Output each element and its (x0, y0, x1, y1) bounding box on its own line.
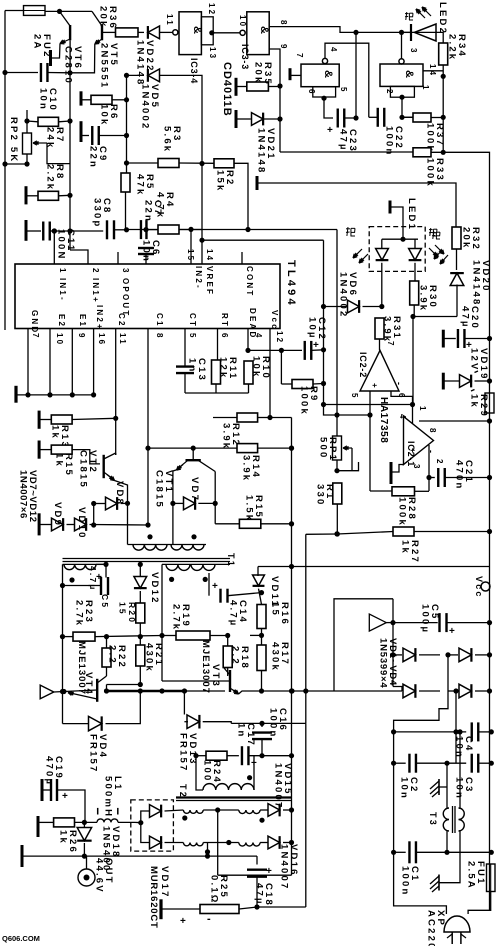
svg-text:1k: 1k (54, 453, 65, 468)
svg-text:C5: C5 (100, 594, 110, 609)
svg-text:16: 16 (97, 333, 106, 346)
svg-text:100n: 100n (400, 866, 411, 896)
svg-text:470µ: 470µ (44, 756, 55, 786)
svg-text:Q606.COM: Q606.COM (2, 934, 40, 943)
svg-text:20k: 20k (98, 6, 109, 28)
svg-text:8: 8 (155, 333, 164, 340)
svg-text:47k: 47k (135, 174, 146, 196)
svg-text:7: 7 (295, 53, 304, 60)
svg-text:11: 11 (118, 333, 127, 346)
svg-text:10: 10 (55, 333, 64, 346)
svg-text:1N4002: 1N4002 (140, 84, 151, 130)
svg-text:47µ: 47µ (460, 306, 471, 329)
svg-text:&: & (322, 70, 334, 80)
svg-text:FR157: FR157 (88, 734, 99, 774)
svg-text:3: 3 (121, 268, 130, 275)
svg-text:430k: 430k (270, 642, 281, 672)
svg-text:-: - (394, 382, 404, 387)
svg-text:C1815: C1815 (154, 470, 165, 509)
svg-text:3.9k: 3.9k (221, 423, 232, 450)
svg-text:3.9k: 3.9k (382, 316, 393, 343)
svg-text:E1: E1 (78, 314, 87, 328)
svg-text:7: 7 (386, 341, 395, 348)
svg-text:VD12: VD12 (149, 572, 160, 605)
svg-text:1: 1 (58, 268, 67, 275)
svg-text:10n: 10n (38, 88, 49, 111)
svg-text:430k: 430k (144, 643, 155, 673)
svg-text:14: 14 (428, 64, 437, 77)
svg-text:-: - (207, 913, 211, 925)
svg-text:CT: CT (188, 313, 197, 328)
svg-text:10: 10 (238, 15, 247, 28)
svg-text:3: 3 (409, 48, 418, 55)
svg-text:1N4148: 1N4148 (471, 260, 482, 306)
svg-text:5: 5 (350, 393, 359, 400)
svg-text:2N5551: 2N5551 (99, 43, 110, 89)
svg-text:VD7: VD7 (189, 477, 200, 502)
svg-text:100N: 100N (56, 229, 67, 261)
svg-text:+: + (327, 125, 333, 136)
svg-text:10n: 10n (399, 777, 410, 800)
svg-text:+: + (180, 916, 186, 927)
svg-text:0.1Ω: 0.1Ω (209, 875, 220, 905)
svg-text:10n: 10n (454, 777, 465, 800)
svg-text:+: + (62, 791, 68, 802)
svg-text:470n: 470n (454, 460, 465, 490)
svg-text:1N4007: 1N4007 (279, 844, 290, 890)
svg-text:4.7k: 4.7k (155, 192, 166, 219)
svg-text:+: + (212, 581, 218, 592)
svg-text:CD4011B: CD4011B (221, 62, 233, 117)
svg-text:5.6k: 5.6k (162, 126, 173, 153)
svg-text:12: 12 (207, 3, 216, 16)
svg-text:100k: 100k (397, 497, 408, 527)
svg-text:22n: 22n (88, 146, 99, 169)
svg-text:IN2-: IN2- (194, 266, 203, 290)
svg-text:1.5k: 1.5k (244, 495, 255, 522)
svg-text:15: 15 (270, 602, 281, 617)
svg-text:12V: 12V (469, 348, 480, 372)
svg-text:VD8: VD8 (114, 481, 125, 506)
svg-text:LED2: LED2 (437, 2, 448, 35)
svg-text:2A: 2A (32, 34, 43, 51)
svg-text:&: & (403, 70, 415, 80)
svg-text:MJE13007: MJE13007 (76, 641, 87, 695)
svg-text:47µ: 47µ (254, 883, 265, 906)
svg-text:24k: 24k (45, 127, 56, 149)
svg-text:C1815: C1815 (78, 450, 89, 489)
svg-text:T2: T2 (178, 784, 188, 799)
svg-text:2.7k: 2.7k (171, 604, 182, 631)
svg-text:1N4002: 1N4002 (338, 272, 349, 318)
svg-text:500mH: 500mH (103, 776, 114, 818)
svg-text:100k: 100k (299, 386, 310, 416)
svg-text:RP2 5K: RP2 5K (8, 117, 19, 163)
svg-text:1k: 1k (469, 394, 480, 409)
svg-text:IN1-: IN1- (58, 278, 67, 302)
svg-text:+: + (96, 572, 102, 583)
svg-text:Vcc: Vcc (474, 576, 484, 599)
svg-text:2.2k: 2.2k (45, 164, 56, 191)
svg-text:4.7µ: 4.7µ (228, 600, 239, 627)
svg-text:VD9: VD9 (52, 502, 63, 527)
svg-text:OPOUT: OPOUT (121, 278, 130, 317)
svg-text:2: 2 (435, 459, 444, 466)
svg-text:C1: C1 (155, 313, 164, 328)
svg-text:E2: E2 (57, 314, 66, 328)
svg-text:2.7k: 2.7k (74, 600, 85, 627)
svg-text:3.9k: 3.9k (418, 285, 429, 312)
svg-text:VD10: VD10 (76, 507, 87, 540)
svg-text:MUR1620CT: MUR1620CT (148, 866, 159, 929)
svg-text:CONT: CONT (245, 266, 254, 297)
svg-text:TL494: TL494 (285, 260, 297, 308)
svg-text:-: - (426, 450, 436, 455)
svg-text:1k: 1k (58, 830, 69, 845)
svg-text:1: 1 (421, 85, 430, 92)
svg-text:IC3-4: IC3-4 (189, 58, 199, 84)
svg-text:10µ: 10µ (307, 317, 318, 340)
svg-text:IC2-1: IC2-1 (406, 441, 416, 467)
svg-text:C2810: C2810 (63, 46, 74, 85)
svg-text:2.2k: 2.2k (447, 34, 458, 61)
svg-text:8: 8 (428, 428, 437, 435)
svg-text:RT: RT (220, 313, 229, 328)
svg-text:47µ: 47µ (338, 129, 349, 152)
svg-text:22n: 22n (143, 200, 154, 223)
svg-text:&: & (258, 26, 270, 36)
svg-text:5: 5 (188, 333, 197, 340)
svg-text:1n: 1n (236, 723, 247, 739)
svg-text:6: 6 (220, 333, 229, 340)
svg-text:44.6V: 44.6V (94, 858, 105, 894)
svg-text:VREF: VREF (205, 266, 214, 296)
svg-text:14: 14 (205, 249, 214, 262)
svg-text:4: 4 (329, 47, 338, 54)
svg-text:1N4148: 1N4148 (256, 128, 267, 174)
svg-text:10k: 10k (251, 356, 262, 378)
svg-text:8: 8 (279, 20, 288, 27)
svg-text:IN2+: IN2+ (95, 305, 104, 331)
svg-text:1N4007×6: 1N4007×6 (18, 470, 29, 519)
svg-text:15: 15 (118, 602, 128, 616)
svg-text:6: 6 (307, 89, 316, 96)
svg-text:20k: 20k (461, 227, 472, 249)
svg-text:20k: 20k (253, 62, 264, 84)
svg-text:1N4148: 1N4148 (135, 40, 146, 86)
svg-text:MJE13007: MJE13007 (200, 640, 211, 694)
svg-text:1N4007: 1N4007 (273, 763, 284, 809)
svg-text:IC2-2: IC2-2 (358, 352, 368, 378)
svg-text:100: 100 (202, 760, 213, 782)
svg-text:4: 4 (398, 414, 407, 421)
svg-text:IC3-3: IC3-3 (240, 44, 250, 70)
svg-text:+: + (313, 340, 319, 351)
svg-text:500: 500 (318, 437, 329, 459)
svg-text:C2: C2 (117, 313, 126, 328)
svg-text:+: + (370, 383, 379, 390)
svg-text:VD17: VD17 (159, 866, 170, 899)
svg-text:2: 2 (385, 89, 394, 96)
svg-text:2.2: 2.2 (107, 645, 118, 665)
svg-text:2: 2 (91, 268, 100, 275)
svg-text:1k: 1k (50, 425, 61, 440)
svg-text:AC220V: AC220V (426, 910, 437, 946)
svg-text:4: 4 (254, 333, 263, 340)
svg-text:1: 1 (418, 406, 427, 413)
svg-text:10k: 10k (99, 104, 110, 126)
svg-text:T1: T1 (226, 553, 236, 568)
svg-text:12: 12 (275, 331, 284, 344)
svg-text:R20: R20 (127, 602, 137, 624)
svg-text:T3: T3 (428, 812, 438, 827)
svg-text:5: 5 (339, 87, 348, 94)
svg-text:IN1+: IN1+ (91, 278, 100, 304)
svg-text:FR157: FR157 (178, 733, 189, 773)
svg-text:+: + (449, 626, 455, 637)
svg-text:7: 7 (31, 333, 40, 340)
svg-text:330p: 330p (92, 198, 103, 228)
svg-text:13: 13 (208, 47, 217, 60)
svg-text:1k: 1k (400, 540, 411, 555)
svg-text:Vcc: Vcc (270, 310, 279, 331)
svg-text:12k: 12k (218, 357, 229, 379)
svg-text:15k: 15k (215, 170, 226, 192)
svg-text:1n: 1n (187, 358, 198, 374)
svg-text:10n: 10n (454, 736, 465, 759)
svg-text:330: 330 (315, 484, 326, 506)
svg-text:1N5399×4: 1N5399×4 (378, 638, 389, 689)
svg-text:2.2: 2.2 (230, 646, 241, 666)
svg-text:100µ: 100µ (420, 604, 431, 634)
svg-text:100n: 100n (268, 708, 279, 738)
svg-text:11: 11 (165, 14, 174, 27)
svg-text:9: 9 (77, 333, 86, 340)
svg-text:10n: 10n (141, 240, 152, 263)
svg-text:GND: GND (30, 310, 39, 334)
svg-text:3.9k: 3.9k (241, 455, 252, 482)
svg-text:2.5A: 2.5A (466, 861, 477, 890)
